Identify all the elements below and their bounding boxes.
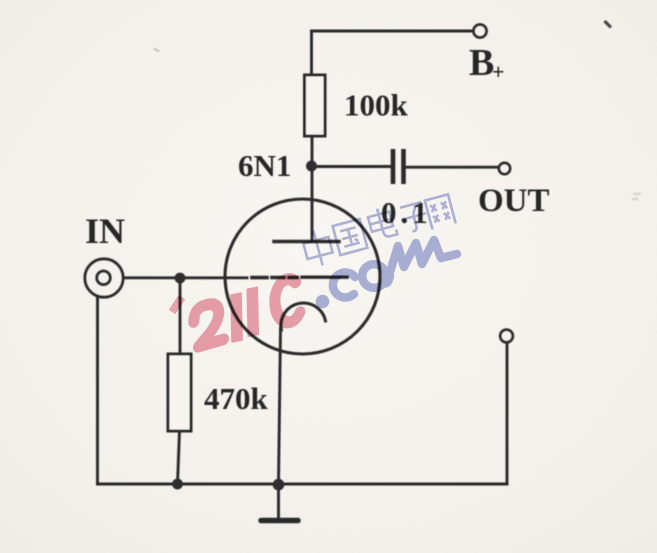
svg-text:100k: 100k: [344, 88, 409, 123]
svg-text:6N1: 6N1: [238, 148, 291, 183]
svg-text:470k: 470k: [204, 381, 269, 416]
svg-text:OUT: OUT: [478, 183, 550, 219]
svg-text:B: B: [469, 42, 494, 84]
svg-text:IN: IN: [85, 211, 125, 251]
svg-text:+: +: [492, 59, 505, 84]
